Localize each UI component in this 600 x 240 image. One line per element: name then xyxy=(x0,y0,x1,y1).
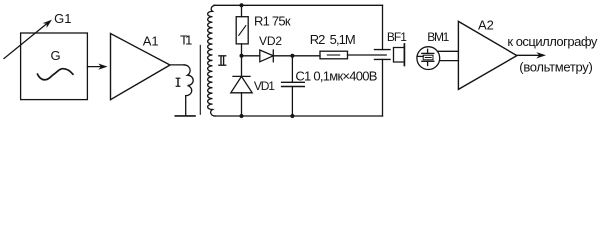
wire R1 bottom lead xyxy=(241,44,243,56)
output arrow xyxy=(517,52,546,58)
svg-text:C1 0,1мк×400В: C1 0,1мк×400В xyxy=(295,69,377,84)
G1 adjustment arrow xyxy=(4,20,52,59)
node: junction R1/VD2/VD1 xyxy=(240,54,244,58)
wire R2 to BF1 xyxy=(348,54,387,56)
wire to R2 xyxy=(292,55,320,57)
node: junction VD1 bottom xyxy=(240,114,244,118)
capacitor C1 xyxy=(282,56,305,116)
label I xyxy=(176,78,181,86)
svg-text:VD1: VD1 xyxy=(254,79,275,93)
svg-text:BF1: BF1 xyxy=(387,30,407,44)
svg-text:VD2: VD2 xyxy=(259,34,282,48)
label II xyxy=(218,56,226,65)
wires BM1 to A2 xyxy=(438,50,459,52)
wire A1 to T1 primary xyxy=(170,64,185,66)
svg-text:(вольтметру): (вольтметру) xyxy=(519,60,593,75)
node: junction VD2/R2/C1 xyxy=(290,54,294,58)
diode VD1 xyxy=(231,56,252,116)
wire G1 to A1 with arrow xyxy=(87,64,107,70)
svg-text:G: G xyxy=(51,48,61,63)
BF1 body box xyxy=(394,44,405,66)
diode VD2 xyxy=(260,50,274,62)
sine symbol in G1 xyxy=(38,69,73,80)
generator G1 box xyxy=(21,33,88,100)
svg-text:A1: A1 xyxy=(143,33,159,48)
primary ground bar xyxy=(175,115,195,117)
node: junction top at R1 xyxy=(240,3,244,7)
wire right side down to BF1 xyxy=(382,5,384,49)
R2 power dash xyxy=(327,54,339,56)
amplifier A1 xyxy=(111,34,171,100)
transformer T1 primary winding I xyxy=(184,65,193,116)
wire R1 top lead xyxy=(241,5,243,16)
svg-text:R2 5,1М: R2 5,1М xyxy=(310,32,356,47)
transformer T1 secondary winding II xyxy=(208,5,215,116)
svg-text:T1: T1 xyxy=(180,32,192,47)
resistor R2 xyxy=(320,51,348,59)
resistor R1 xyxy=(236,17,248,44)
transducer BF1 plates xyxy=(375,50,391,116)
amplifier A2 xyxy=(458,21,517,89)
R1 power slash xyxy=(239,26,246,36)
wire to VD2 xyxy=(242,55,260,57)
svg-text:R1 75к: R1 75к xyxy=(254,13,291,28)
wire VD2 to junction xyxy=(273,55,292,57)
svg-text:G1: G1 xyxy=(54,11,71,26)
svg-text:A2: A2 xyxy=(478,17,494,32)
bottom wire xyxy=(214,115,383,117)
svg-text:BM1: BM1 xyxy=(427,30,449,44)
transformer core xyxy=(199,45,201,114)
node: junction C1 bottom xyxy=(290,114,294,118)
top wire xyxy=(214,4,383,6)
svg-text:к осциллографу: к осциллографу xyxy=(507,34,598,49)
microphone BM1 xyxy=(417,47,440,70)
